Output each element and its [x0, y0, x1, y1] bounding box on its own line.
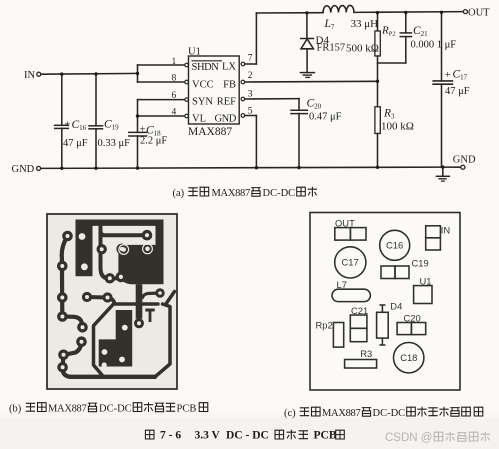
svg-text:DC-DC: DC-DC: [263, 188, 296, 199]
svg-text:U1: U1: [188, 47, 201, 58]
svg-text:GND: GND: [214, 114, 236, 125]
svg-text:CSDN @: CSDN @: [385, 432, 432, 444]
svg-text:C21: C21: [351, 305, 368, 316]
svg-text:100 kΩ: 100 kΩ: [381, 121, 414, 133]
svg-text:LX: LX: [222, 62, 236, 73]
svg-text:MAX887: MAX887: [48, 404, 87, 415]
svg-text:OUT: OUT: [335, 218, 355, 229]
svg-text:C16: C16: [386, 240, 403, 251]
svg-text:MAX887: MAX887: [212, 188, 251, 199]
svg-text:L7: L7: [337, 279, 347, 290]
svg-text:0.000 1 μF: 0.000 1 μF: [411, 40, 457, 51]
svg-text:C17: C17: [342, 257, 359, 268]
svg-text:+: +: [445, 70, 451, 81]
svg-text:IN: IN: [441, 224, 450, 235]
svg-text:GND: GND: [453, 155, 476, 166]
svg-text:D4: D4: [390, 301, 402, 312]
svg-text:VL: VL: [192, 114, 206, 125]
svg-text:DC-DC: DC-DC: [373, 408, 406, 419]
svg-text:(c): (c): [284, 408, 296, 419]
svg-text:0.47 μF: 0.47 μF: [309, 112, 342, 123]
svg-text:VCC: VCC: [192, 80, 214, 91]
svg-text:U1: U1: [420, 275, 432, 286]
svg-text:IN: IN: [24, 70, 35, 81]
svg-text:R3: R3: [360, 348, 372, 359]
svg-text:C20: C20: [404, 313, 421, 324]
svg-text:FB: FB: [223, 80, 236, 91]
svg-text:5: 5: [248, 107, 253, 117]
svg-text:GND: GND: [12, 164, 35, 175]
svg-text:FR157: FR157: [317, 43, 346, 54]
svg-text:47 μF: 47 μF: [445, 86, 470, 97]
svg-text:2: 2: [248, 71, 253, 81]
svg-text:1: 1: [172, 57, 177, 67]
svg-text:7 - 6: 7 - 6: [160, 430, 181, 442]
svg-text:PCB: PCB: [314, 430, 337, 442]
svg-text:0.33 μF: 0.33 μF: [98, 138, 131, 149]
svg-text:MAX887: MAX887: [322, 408, 361, 419]
svg-text:OUT: OUT: [468, 8, 490, 19]
svg-text:2.2 μF: 2.2 μF: [140, 136, 167, 147]
svg-text:(b): (b): [9, 404, 22, 415]
svg-text:4: 4: [172, 108, 177, 118]
svg-text:C19: C19: [412, 257, 429, 268]
svg-text:PCB: PCB: [177, 404, 197, 415]
svg-text:MAX887: MAX887: [188, 126, 232, 138]
svg-text:Rp2: Rp2: [316, 320, 333, 331]
svg-text:+: +: [140, 125, 146, 136]
svg-text:DC-DC: DC-DC: [99, 404, 132, 415]
svg-text:3.3 V: 3.3 V: [195, 430, 221, 442]
svg-text:7: 7: [248, 54, 253, 64]
svg-text:6: 6: [172, 91, 177, 101]
svg-text:47 μF: 47 μF: [63, 138, 88, 149]
svg-text:SHDN: SHDN: [192, 62, 220, 73]
svg-text:C18: C18: [400, 352, 417, 363]
svg-text:SYN: SYN: [192, 97, 213, 108]
svg-text:8: 8: [172, 74, 177, 84]
svg-text:3: 3: [248, 90, 253, 100]
svg-text:500 kΩ: 500 kΩ: [346, 43, 379, 55]
svg-text:(a): (a): [173, 188, 185, 199]
svg-text:33 μH: 33 μH: [351, 18, 379, 30]
svg-text:+: +: [65, 120, 71, 131]
svg-text:REF: REF: [217, 97, 236, 108]
svg-text:DC - DC: DC - DC: [226, 430, 269, 442]
